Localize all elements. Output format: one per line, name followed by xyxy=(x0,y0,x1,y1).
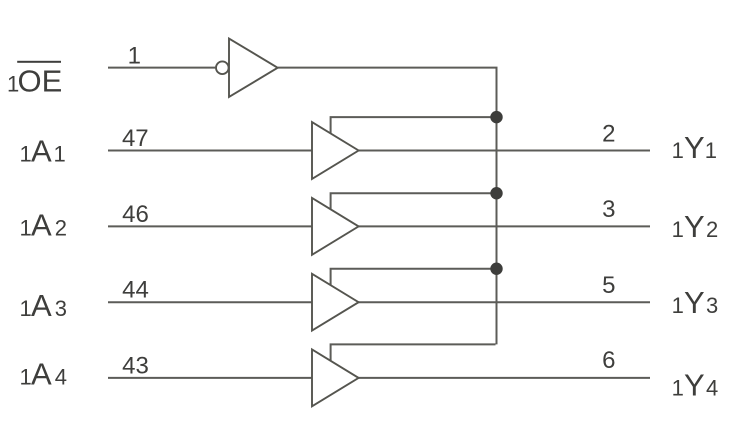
svg-text:2: 2 xyxy=(602,120,615,147)
svg-text:43: 43 xyxy=(122,352,149,379)
buffer U5 channel 4 xyxy=(312,350,359,407)
svg-text:44: 44 xyxy=(122,277,149,304)
wire 1A2 input xyxy=(108,225,312,227)
svg-text:1A4: 1A4 xyxy=(20,357,68,392)
wire inverter output to enable bus xyxy=(278,67,496,69)
wire 1Y1 output xyxy=(358,150,650,152)
buffer U2 channel 1 xyxy=(312,122,359,179)
wire 1Y4 output xyxy=(358,377,650,379)
svg-text:1Y4: 1Y4 xyxy=(672,368,719,403)
svg-text:1A2: 1A2 xyxy=(20,207,68,242)
net label 1OE (with overbar) xyxy=(7,61,62,99)
buffer U4 channel 3 xyxy=(312,274,359,331)
wire 1A3 input xyxy=(108,301,312,303)
svg-text:6: 6 xyxy=(602,347,615,374)
wire enable branch to buffer 2 xyxy=(331,193,497,209)
junction dot enable/buffer1 xyxy=(490,111,502,123)
svg-text:OE: OE xyxy=(18,64,63,99)
buffer U3 channel 2 xyxy=(312,198,359,255)
svg-text:1Y3: 1Y3 xyxy=(672,285,719,320)
wire 1Y2 output xyxy=(358,225,650,227)
svg-text:47: 47 xyxy=(122,125,149,152)
svg-text:1: 1 xyxy=(128,43,141,70)
wire enable bus vertical xyxy=(496,67,498,345)
wire enable branch to buffer 3 xyxy=(331,269,497,286)
svg-text:3: 3 xyxy=(602,196,615,223)
wire 1OE input (pin 1 to inverter bubble) xyxy=(108,67,215,69)
svg-text:1A1: 1A1 xyxy=(20,134,66,169)
wire enable branch to buffer 1 xyxy=(331,117,497,134)
junction dot enable/buffer2 xyxy=(490,187,502,199)
wire 1A1 input xyxy=(108,150,312,152)
svg-text:46: 46 xyxy=(122,201,149,228)
svg-text:1Y2: 1Y2 xyxy=(672,209,719,244)
svg-text:5: 5 xyxy=(602,272,615,299)
svg-text:1Y1: 1Y1 xyxy=(672,130,717,165)
wire 1A4 input xyxy=(108,377,312,379)
svg-text:1A3: 1A3 xyxy=(20,288,68,323)
inverter U1 on 1OE xyxy=(216,39,278,98)
wire enable branch to buffer 4 xyxy=(331,344,496,361)
wire 1Y3 output xyxy=(358,301,650,303)
junction dot enable/buffer3 xyxy=(490,263,502,275)
